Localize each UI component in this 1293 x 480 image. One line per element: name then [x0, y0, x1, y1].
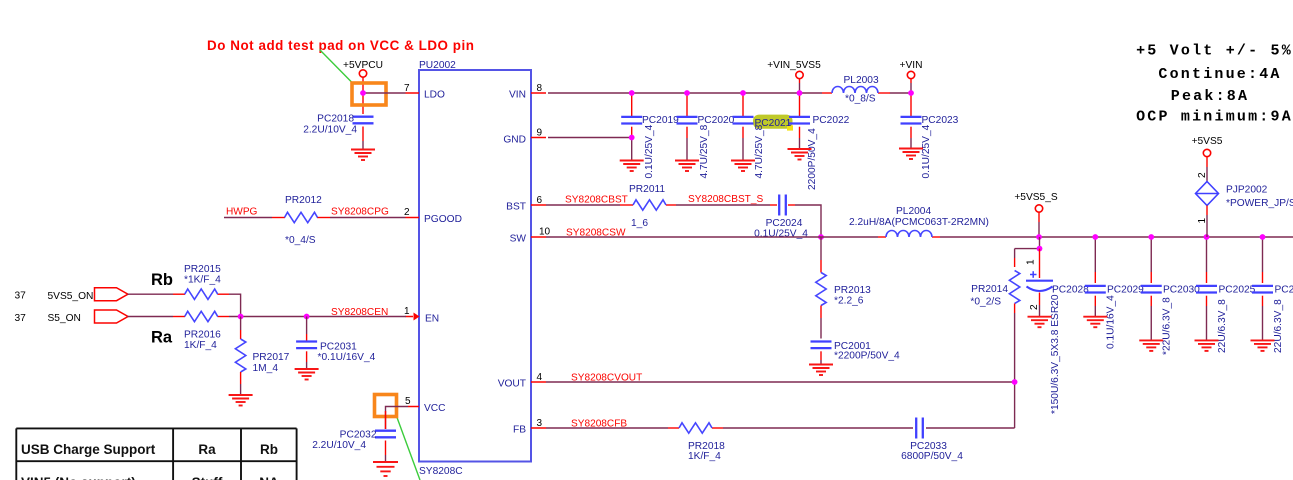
svg-text:PC2020: PC2020 [698, 115, 735, 126]
power symbol +5VS5 [1192, 136, 1223, 182]
wire LDO to IC [363, 92, 406, 94]
net SY8208CPG [331, 207, 389, 218]
net SY8208CFB [571, 418, 627, 429]
svg-text:PGOOD: PGOOD [424, 214, 462, 225]
junction PC2026 on rail [1260, 234, 1266, 240]
resistor PR2016 [184, 311, 221, 351]
svg-text:PC2028: PC2028 [1052, 285, 1089, 296]
resistor PR2018 [679, 423, 725, 462]
wire VOUT row [546, 381, 1015, 383]
svg-text:PC2019: PC2019 [642, 115, 679, 126]
junction +5VS5_S on SW rail [1036, 234, 1042, 240]
svg-text:Continue:4A: Continue:4A [1158, 66, 1281, 83]
svg-text:SW: SW [510, 234, 527, 245]
svg-text:PU2002: PU2002 [419, 60, 456, 71]
svg-text:PC2029: PC2029 [1107, 285, 1144, 296]
net HWPG wire to PGOOD [224, 217, 406, 219]
ground under PC2032 [373, 462, 398, 476]
ground under PC2025 [1195, 340, 1219, 351]
power symbol +5VPCU [343, 60, 383, 114]
svg-text:SY8208CFB: SY8208CFB [571, 418, 627, 429]
svg-text:4.7U/25V_8: 4.7U/25V_8 [754, 124, 765, 178]
ground under PC2030 [1139, 340, 1163, 351]
wire GND pin rail [548, 137, 632, 139]
svg-text:2.2U/10V_4: 2.2U/10V_4 [312, 440, 366, 451]
svg-text:USB Charge Support: USB Charge Support [21, 442, 156, 457]
port 5VS5_ON (sheet 37) [15, 288, 129, 302]
svg-text:+5 Volt +/- 5%: +5 Volt +/- 5% [1136, 42, 1293, 59]
resistor PR2014 sense [970, 249, 1019, 313]
svg-text:2.2U/10V_4: 2.2U/10V_4 [303, 125, 357, 136]
svg-text:Do Not add test pad on VCC & L: Do Not add test pad on VCC & LDO pin [207, 38, 475, 53]
svg-text:SY8208CSW: SY8208CSW [566, 227, 626, 238]
svg-text:PC2030: PC2030 [1163, 285, 1200, 296]
callout line from VCC test-pad box [397, 418, 420, 480]
capacitor PC2030 [1141, 237, 1200, 355]
junction PC2029 on rail [1092, 234, 1098, 240]
capacitor PC2025 [1196, 237, 1256, 353]
svg-text:2.2uH/8A(PCMC063T-2R2MN): 2.2uH/8A(PCMC063T-2R2MN) [849, 217, 989, 228]
svg-text:PR2011: PR2011 [629, 184, 665, 195]
svg-text:VIN5 (No support): VIN5 (No support) [21, 475, 136, 480]
svg-text:SY8208CBST: SY8208CBST [565, 195, 628, 206]
pin 4 VOUT [498, 372, 546, 390]
svg-text:PC2025: PC2025 [1219, 285, 1256, 296]
svg-text:OCP minimum:9A: OCP minimum:9A [1136, 109, 1293, 126]
pin 2 PGOOD [404, 207, 462, 225]
svg-text:*150U/6.3V_5X3.8 ESR20: *150U/6.3V_5X3.8 ESR20 [1050, 294, 1061, 414]
svg-text:*0_2/S: *0_2/S [970, 297, 1001, 308]
capacitor PC2031 [296, 317, 376, 369]
ground under PC2001 [809, 365, 833, 376]
svg-text:+5VPCU: +5VPCU [343, 60, 383, 71]
ground under PC2022 [788, 149, 812, 160]
svg-text:SY8208C: SY8208C [419, 466, 463, 477]
svg-text:*0_4/S: *0_4/S [285, 235, 316, 246]
ground under PC2019 [620, 161, 644, 172]
capacitor PC2018 [303, 114, 373, 150]
svg-text:*POWER_JP/S: *POWER_JP/S [1226, 198, 1293, 209]
callout line to LDO test-pad box [320, 50, 352, 83]
svg-text:1_6: 1_6 [631, 218, 648, 229]
svg-text:PR2015: PR2015 [184, 264, 221, 275]
label Rb [151, 271, 173, 289]
svg-text:5: 5 [405, 396, 411, 407]
svg-text:*0_8/S: *0_8/S [845, 94, 876, 105]
junction PC2030 on rail [1148, 234, 1154, 240]
power symbol +5VS5_S [1014, 192, 1058, 237]
net SY8208CSW [566, 227, 626, 238]
port S5_ON (sheet 37) [15, 310, 129, 324]
node HWPG [226, 207, 258, 218]
highlight on PC2021 [753, 115, 793, 131]
junction PC2021 on VIN [740, 90, 746, 96]
svg-text:6800P/50V_4: 6800P/50V_4 [901, 451, 963, 462]
resistor PR2013 snubber [816, 237, 871, 339]
svg-text:HWPG: HWPG [226, 207, 258, 218]
net SY8208CEN [331, 307, 388, 318]
svg-text:+VIN_5VS5: +VIN_5VS5 [767, 60, 821, 71]
resistor PR2011 [629, 184, 666, 229]
svg-text:PC2022: PC2022 [813, 115, 850, 126]
capacitor PC2028 polarized [1026, 249, 1090, 414]
svg-text:PL2004: PL2004 [896, 206, 931, 217]
op-amp U1 : regulator IC PU2002 SY8208C body [419, 60, 531, 477]
capacitor PC2023 [901, 93, 959, 179]
svg-text:Rb: Rb [260, 442, 278, 457]
svg-text:Ra: Ra [151, 329, 173, 347]
svg-text:+VIN: +VIN [900, 60, 923, 71]
svg-text:Peak:8A: Peak:8A [1171, 88, 1249, 105]
svg-text:VOUT: VOUT [498, 379, 526, 390]
svg-text:PL2003: PL2003 [844, 75, 879, 86]
svg-text:0.1U/25V_4: 0.1U/25V_4 [921, 124, 932, 178]
capacitor PC2021 [733, 93, 792, 179]
svg-text:0.1U/25V_4: 0.1U/25V_4 [754, 229, 808, 240]
svg-text:5VS5_ON: 5VS5_ON [48, 291, 94, 302]
junction PC2019 on VIN [629, 90, 635, 96]
svg-text:PJP2002: PJP2002 [1226, 185, 1268, 196]
pin 8 VIN [509, 83, 546, 101]
svg-text:PR2017: PR2017 [253, 352, 290, 363]
ground under PC2020 [675, 161, 699, 172]
ground under PC2026 [1251, 340, 1275, 351]
wire VOUT/FB sense vertical [1014, 313, 1016, 428]
junction branch split [1037, 246, 1043, 252]
svg-text:NA: NA [259, 475, 279, 480]
jumper PJP2002 [1196, 172, 1293, 237]
pin 5 VCC [405, 396, 446, 414]
power symbol +VIN_5VS5 [767, 60, 821, 93]
junction PC2023 on VIN [908, 90, 914, 96]
svg-text:FB: FB [513, 425, 526, 436]
capacitor PC2026 [1252, 237, 1293, 353]
inductor PL2003 [832, 75, 879, 105]
svg-text:EN: EN [425, 314, 439, 325]
annotation: Do Not add test pad warning [207, 38, 475, 53]
svg-text:1M_4: 1M_4 [253, 363, 279, 374]
svg-text:3: 3 [537, 418, 543, 429]
svg-text:LDO: LDO [424, 90, 445, 101]
ground under PC2028 [1028, 317, 1052, 328]
svg-text:4.7U/25V_8: 4.7U/25V_8 [699, 124, 710, 178]
svg-text:37: 37 [15, 291, 27, 302]
svg-text:22U/6.3V_8: 22U/6.3V_8 [1217, 299, 1228, 353]
wire SW rail [546, 236, 1293, 238]
junction node PC2031 tap [304, 314, 310, 320]
svg-text:6: 6 [537, 195, 543, 206]
junction PC2019 on GND [629, 135, 635, 141]
svg-text:9: 9 [537, 128, 543, 139]
net SY8208CBST_S [688, 194, 763, 205]
node junction on LDO [360, 90, 366, 96]
svg-text:0.1U/25V_4: 0.1U/25V_4 [644, 124, 655, 178]
svg-text:*1K/F_4: *1K/F_4 [184, 275, 221, 286]
wire VIN rail [548, 92, 911, 94]
pin 10 SW [510, 227, 551, 245]
svg-text:2200P/50V_4: 2200P/50V_4 [807, 128, 818, 190]
capacitor PC2019 [621, 93, 679, 179]
title +5 Volt spec [1136, 42, 1293, 125]
svg-text:1: 1 [404, 306, 410, 317]
svg-text:*0.1U/16V_4: *0.1U/16V_4 [318, 352, 376, 363]
svg-text:Rb: Rb [151, 271, 173, 289]
table header text [21, 442, 278, 457]
ground under PC2018 [351, 150, 375, 161]
resistor PR2015 [184, 264, 221, 299]
resistor PR2017 [235, 317, 289, 395]
capacitor PC2024 [754, 195, 808, 240]
junction node PR2017 tap [238, 314, 244, 320]
junction BST cap to SW [818, 234, 824, 240]
svg-text:2: 2 [404, 207, 410, 218]
svg-text:PC2018: PC2018 [317, 114, 354, 125]
pin 7 LDO [404, 83, 445, 101]
table USB Charge Support [16, 428, 296, 480]
svg-text:22U/6.3V_8: 22U/6.3V_8 [1273, 299, 1284, 353]
wire rail branch to PR2014 [1015, 237, 1040, 249]
svg-text:VIN: VIN [509, 90, 526, 101]
wire FB row [546, 427, 1015, 429]
svg-text:*22U/6.3V_8: *22U/6.3V_8 [1162, 297, 1173, 355]
svg-text:GND: GND [503, 135, 526, 146]
power symbol +VIN [900, 60, 923, 93]
svg-text:SY8208CPG: SY8208CPG [331, 207, 389, 218]
junction PC2022 on VIN [797, 90, 803, 96]
svg-text:SY8208CVOUT: SY8208CVOUT [571, 372, 642, 383]
test pad box on LDO [352, 83, 386, 105]
inductor PL2004 [849, 206, 989, 237]
svg-text:*2200P/50V_4: *2200P/50V_4 [834, 351, 900, 362]
pin 1 EN with input arrow [404, 306, 439, 325]
capacitor PC2033 [901, 418, 963, 463]
svg-text:SY8208CEN: SY8208CEN [331, 307, 388, 318]
svg-text:8: 8 [537, 83, 543, 94]
ground under PR2017 [229, 395, 253, 406]
svg-text:PC2032: PC2032 [340, 430, 377, 441]
svg-text:1K/F_4: 1K/F_4 [688, 451, 721, 462]
svg-text:PR2013: PR2013 [834, 285, 871, 296]
net SY8208CBST [565, 195, 628, 206]
wire 5VS5_ON row [128, 294, 241, 316]
svg-text:PC2024: PC2024 [766, 218, 803, 229]
ground under PC2029 [1083, 317, 1107, 328]
test pad box on VCC [375, 395, 397, 417]
capacitor PC2032 [312, 430, 396, 462]
ground under PC2023 [899, 149, 923, 160]
wire S5_ON row to EN [128, 316, 407, 318]
svg-text:10: 10 [539, 227, 551, 238]
svg-text:2: 2 [1197, 172, 1208, 178]
pin 3 FB [513, 418, 546, 436]
table row VIN5 (No support) [21, 475, 279, 480]
svg-text:SY8208CBST_S: SY8208CBST_S [688, 194, 763, 205]
wire VCC pin to PC2032 [386, 407, 409, 430]
svg-text:37: 37 [15, 313, 27, 324]
svg-text:S5_ON: S5_ON [48, 313, 81, 324]
ground under PC2031 [295, 369, 319, 380]
svg-text:2: 2 [1029, 304, 1040, 310]
capacitor PC2022 [789, 93, 850, 190]
resistor PR2012 [285, 195, 323, 246]
label Ra [151, 329, 173, 347]
svg-text:VCC: VCC [424, 403, 446, 414]
capacitor PC2001 snubber [811, 341, 901, 364]
svg-text:Stuff: Stuff [192, 475, 223, 480]
svg-text:PR2016: PR2016 [184, 330, 221, 341]
svg-text:1K/F_4: 1K/F_4 [184, 340, 217, 351]
svg-text:BST: BST [506, 202, 526, 213]
svg-text:PC2023: PC2023 [922, 115, 959, 126]
svg-text:0.1U/16V_4: 0.1U/16V_4 [1106, 295, 1117, 349]
svg-text:+5VS5_S: +5VS5_S [1014, 192, 1058, 203]
wire BST row [546, 205, 821, 237]
pin 9 GND [503, 128, 546, 146]
svg-text:PC2031: PC2031 [320, 342, 357, 353]
ground under PC2021 [731, 161, 755, 172]
pin 6 BST [506, 195, 546, 213]
svg-text:PR2014: PR2014 [971, 284, 1008, 295]
svg-text:PC2026: PC2026 [1275, 285, 1293, 296]
net SY8208CVOUT [571, 372, 642, 383]
svg-text:*2.2_6: *2.2_6 [834, 296, 864, 307]
svg-text:Ra: Ra [198, 442, 216, 457]
junction VOUT sense [1012, 379, 1018, 385]
junction PC2020 on VIN [684, 90, 690, 96]
svg-text:PR2012: PR2012 [285, 195, 322, 206]
svg-text:4: 4 [537, 372, 543, 383]
capacitor PC2029 [1085, 237, 1144, 349]
svg-text:+5VS5: +5VS5 [1192, 136, 1223, 147]
capacitor PC2020 [677, 93, 735, 179]
junction PC2025 on rail [1204, 234, 1210, 240]
svg-text:1: 1 [1026, 259, 1037, 265]
